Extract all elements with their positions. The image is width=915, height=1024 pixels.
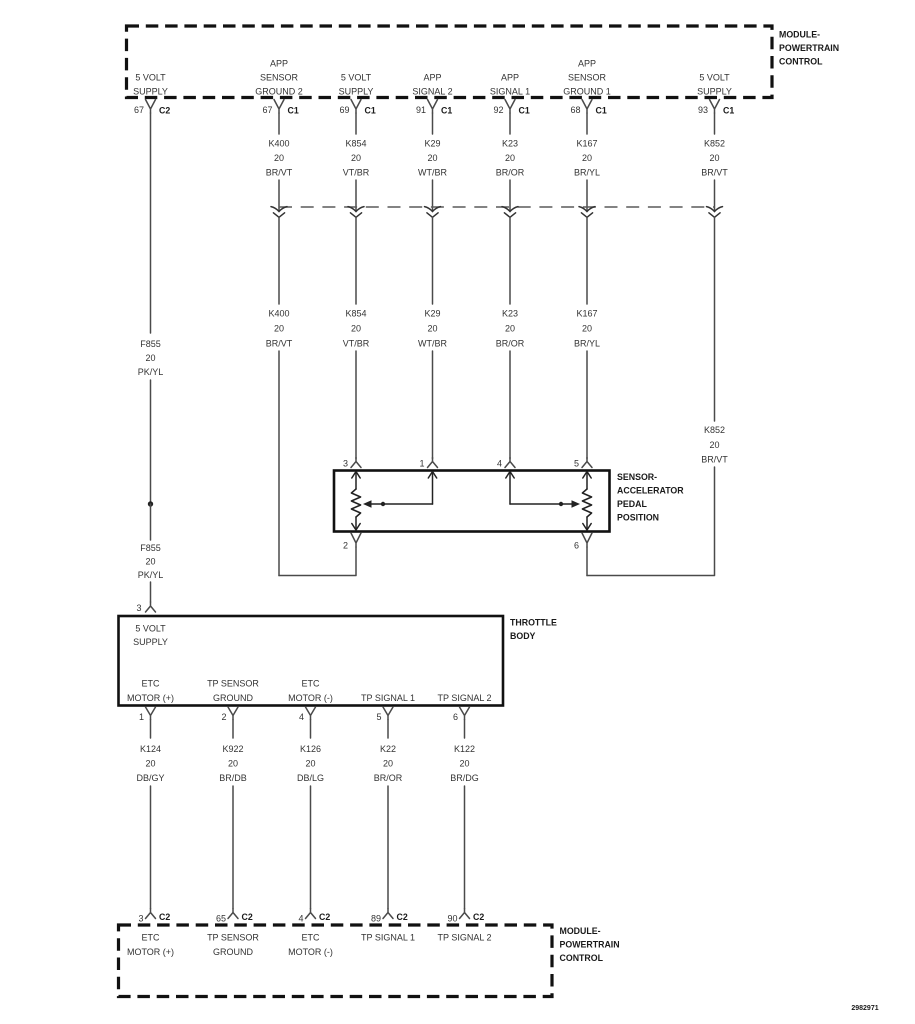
svg-text:GROUND 2: GROUND 2 [255, 87, 303, 97]
svg-text:20: 20 [228, 759, 238, 769]
svg-text:67: 67 [134, 105, 144, 115]
resistor R2 (APP pot 2) [582, 489, 591, 517]
svg-text:ETC: ETC [142, 679, 161, 689]
svg-text:BR/OR: BR/OR [496, 168, 525, 178]
svg-text:BR/YL: BR/YL [574, 339, 600, 349]
in-line connector symbol at K852 [707, 207, 723, 212]
svg-text:6: 6 [574, 541, 579, 551]
svg-text:5: 5 [574, 459, 579, 469]
svg-text:BODY: BODY [510, 631, 536, 641]
svg-text:5 VOLT: 5 VOLT [135, 73, 166, 83]
svg-text:68: 68 [570, 105, 580, 115]
svg-text:C2: C2 [242, 912, 253, 922]
svg-text:4: 4 [298, 914, 303, 924]
svg-text:K852: K852 [704, 139, 725, 149]
connector pin 89 C2 (bottom) [383, 909, 393, 919]
pot 2 wiper dot [559, 502, 563, 506]
connector pin 65 C2 (bottom) [228, 909, 238, 919]
svg-text:BR/YL: BR/YL [574, 168, 600, 178]
svg-text:5 VOLT: 5 VOLT [699, 73, 730, 83]
in-line connector symbol at K29 [425, 207, 441, 212]
svg-text:65: 65 [216, 914, 226, 924]
resistor R1 (APP pot 1) [351, 489, 360, 517]
wire K23 from pin 92 C1 [509, 113, 511, 134]
throttle body pin 6 (bottom) [460, 707, 470, 720]
in-line connector symbol at K854 [348, 207, 364, 212]
wire K167 from pin 68 C1 [586, 113, 588, 134]
svg-text:BR/OR: BR/OR [374, 773, 403, 783]
svg-text:TP SIGNAL 1: TP SIGNAL 1 [361, 933, 415, 943]
wire K29 segment to in-line connector [432, 180, 434, 211]
sensor pin 1 (top) [428, 458, 438, 468]
svg-text:20: 20 [427, 324, 437, 334]
wire K23 segment below in-line connector [509, 217, 511, 304]
svg-text:C2: C2 [159, 106, 170, 116]
svg-text:VT/BR: VT/BR [343, 168, 370, 178]
svg-text:20: 20 [459, 759, 469, 769]
svg-text:SENSOR: SENSOR [260, 73, 299, 83]
wire K852 upper run [714, 217, 716, 421]
wire K126 upper segment [310, 720, 312, 739]
svg-text:C1: C1 [723, 106, 734, 116]
PCM top dashed box [127, 26, 773, 98]
svg-text:DB/LG: DB/LG [297, 773, 324, 783]
wire K854 segment to in-line connector [355, 180, 357, 211]
pot 2 bottom lead [586, 517, 588, 530]
wire K167 segment to sensor pin [586, 351, 588, 459]
connector pin 4 C2 (bottom) [306, 909, 316, 919]
svg-text:ETC: ETC [302, 679, 321, 689]
pot 2 wiper entry arrow (pin 4) [506, 472, 514, 479]
svg-text:90: 90 [447, 914, 457, 924]
svg-text:20: 20 [709, 440, 719, 450]
pot 2 wiper arm [510, 503, 576, 505]
svg-text:SUPPLY: SUPPLY [133, 87, 168, 97]
svg-text:SUPPLY: SUPPLY [133, 637, 168, 647]
svg-text:20: 20 [145, 759, 155, 769]
wire F855 from pin 67 C2 [150, 113, 152, 333]
svg-text:MOTOR (-): MOTOR (-) [288, 947, 333, 957]
svg-text:K854: K854 [345, 309, 366, 319]
svg-text:3: 3 [138, 914, 143, 924]
wire K29 from pin 91 C1 [432, 113, 434, 134]
svg-text:VT/BR: VT/BR [343, 339, 370, 349]
svg-text:C1: C1 [519, 106, 530, 116]
wire K167 segment below in-line connector [586, 217, 588, 304]
svg-text:K852: K852 [704, 425, 725, 435]
wire K854 from pin 69 C1 [355, 113, 357, 134]
svg-text:6: 6 [453, 712, 458, 722]
wire pin6 stub [586, 547, 588, 576]
svg-text:GROUND: GROUND [213, 693, 253, 703]
throttle body pin 2 (bottom) [228, 707, 238, 720]
svg-text:20: 20 [274, 324, 284, 334]
svg-text:WT/BR: WT/BR [418, 339, 447, 349]
svg-text:POWERTRAIN: POWERTRAIN [560, 940, 620, 950]
svg-text:SENSOR-: SENSOR- [617, 472, 657, 482]
svg-text:20: 20 [305, 759, 315, 769]
sensor box outline [334, 471, 610, 532]
svg-text:MOTOR (+): MOTOR (+) [127, 947, 174, 957]
svg-text:1: 1 [139, 712, 144, 722]
wire K400 down to sensor ground run [278, 351, 280, 576]
sensor pin 2 (bottom) [351, 533, 361, 547]
svg-text:C1: C1 [441, 106, 452, 116]
wire K122 upper segment [464, 720, 466, 739]
svg-text:DB/GY: DB/GY [136, 773, 164, 783]
svg-text:BR/VT: BR/VT [266, 339, 293, 349]
svg-text:TP SIGNAL 2: TP SIGNAL 2 [437, 933, 491, 943]
connector pin 68 C1 [582, 100, 592, 114]
svg-text:APP: APP [270, 59, 288, 69]
svg-text:K29: K29 [424, 139, 440, 149]
svg-text:20: 20 [383, 759, 393, 769]
pot 1 wiper dot [381, 502, 385, 506]
wire pin2 to K400 [279, 547, 356, 576]
svg-text:C1: C1 [596, 106, 607, 116]
connector pin 69 C1 [351, 100, 361, 114]
in-line connector symbol at K23 [502, 207, 518, 212]
svg-text:K126: K126 [300, 744, 321, 754]
svg-text:APP: APP [578, 59, 596, 69]
svg-text:4: 4 [299, 712, 304, 722]
svg-text:F855: F855 [140, 339, 161, 349]
in-line connector symbol at K167 [579, 207, 595, 212]
svg-text:K400: K400 [268, 139, 289, 149]
svg-text:89: 89 [371, 914, 381, 924]
svg-text:K400: K400 [268, 309, 289, 319]
svg-text:K22: K22 [380, 744, 396, 754]
svg-text:20: 20 [274, 153, 284, 163]
wire K124 upper segment [150, 720, 152, 739]
svg-text:ACCELERATOR: ACCELERATOR [617, 486, 684, 496]
sensor pin 4 (top) [505, 458, 515, 468]
wire K23 segment to in-line connector [509, 180, 511, 211]
connector pin 91 C1 [428, 100, 438, 114]
wire K22 upper segment [387, 720, 389, 739]
svg-text:SUPPLY: SUPPLY [339, 87, 374, 97]
svg-text:1: 1 [419, 459, 424, 469]
svg-text:20: 20 [505, 324, 515, 334]
svg-text:APP: APP [501, 73, 519, 83]
svg-text:GROUND: GROUND [213, 947, 253, 957]
svg-text:20: 20 [145, 353, 155, 363]
svg-text:3: 3 [136, 603, 141, 613]
svg-text:SIGNAL 2: SIGNAL 2 [412, 87, 452, 97]
svg-text:GROUND 1: GROUND 1 [563, 87, 611, 97]
svg-text:3: 3 [343, 459, 348, 469]
svg-text:THROTTLE: THROTTLE [510, 618, 557, 628]
pot 1 wiper entry arrow (pin 1) [428, 472, 436, 479]
wire K122 segment to PCM pin [464, 786, 466, 909]
svg-text:ETC: ETC [302, 933, 321, 943]
svg-text:BR/VT: BR/VT [266, 168, 293, 178]
svg-text:APP: APP [423, 73, 441, 83]
wire K854 segment below in-line connector [355, 217, 357, 304]
pot 1 exit arrow (pin 2) [352, 524, 360, 531]
svg-text:SENSOR: SENSOR [568, 73, 607, 83]
svg-text:K23: K23 [502, 309, 518, 319]
pot 1 wiper arm [367, 503, 433, 505]
svg-text:TP SENSOR: TP SENSOR [207, 933, 259, 943]
svg-text:C2: C2 [159, 912, 170, 922]
svg-text:TP SIGNAL 2: TP SIGNAL 2 [437, 693, 491, 703]
in-line connector dashed line [279, 206, 715, 208]
svg-text:69: 69 [339, 105, 349, 115]
svg-text:5: 5 [376, 712, 381, 722]
svg-text:C2: C2 [397, 912, 408, 922]
connector pin 67 C2 [146, 100, 156, 114]
svg-text:BR/OR: BR/OR [496, 339, 525, 349]
svg-text:91: 91 [416, 105, 426, 115]
connector pin 67 C1 [274, 100, 284, 114]
svg-text:MODULE-: MODULE- [779, 30, 820, 40]
svg-text:2982971: 2982971 [851, 1005, 878, 1012]
svg-text:POWERTRAIN: POWERTRAIN [779, 43, 839, 53]
svg-text:5 VOLT: 5 VOLT [135, 624, 166, 634]
wire F855 segment to splice [150, 380, 152, 504]
throttle body pin 1 (bottom) [146, 707, 156, 720]
svg-text:4: 4 [497, 459, 502, 469]
wire K852 lower run [587, 467, 715, 576]
svg-text:TP SIGNAL 1: TP SIGNAL 1 [361, 693, 415, 703]
svg-text:CONTROL: CONTROL [560, 953, 604, 963]
svg-text:BR/VT: BR/VT [701, 455, 728, 465]
throttle body pin 5 (bottom) [383, 707, 393, 720]
svg-text:K124: K124 [140, 744, 161, 754]
wire K854 segment to sensor pin [355, 351, 357, 459]
svg-text:MOTOR (+): MOTOR (+) [127, 693, 174, 703]
svg-text:BR/DG: BR/DG [450, 773, 479, 783]
wire K29 segment to sensor pin [432, 351, 434, 459]
svg-text:PEDAL: PEDAL [617, 499, 647, 509]
wire F855 segment to throttle body pin 3 [150, 582, 152, 602]
wire K167 segment to in-line connector [586, 180, 588, 211]
svg-text:BR/VT: BR/VT [701, 168, 728, 178]
in-line connector symbol at K400 [271, 207, 287, 212]
svg-text:BR/DB: BR/DB [219, 773, 247, 783]
connector pin 93 C1 [710, 100, 720, 114]
sensor pin 3 (top) [351, 458, 361, 468]
svg-text:20: 20 [709, 153, 719, 163]
wire K852 segment to in-line connector [714, 180, 716, 211]
svg-text:C1: C1 [365, 106, 376, 116]
svg-text:C1: C1 [288, 106, 299, 116]
svg-text:67: 67 [262, 105, 272, 115]
svg-text:WT/BR: WT/BR [418, 168, 447, 178]
wire K400 from pin 67 C1 [278, 113, 280, 134]
svg-text:C2: C2 [319, 912, 330, 922]
pot 2 entry arrow (pin 5) [583, 472, 591, 479]
throttle body box outline [119, 616, 504, 706]
svg-text:93: 93 [698, 105, 708, 115]
svg-text:K122: K122 [454, 744, 475, 754]
sensor pin 5 (top) [582, 458, 592, 468]
wire K22 segment to PCM pin [387, 786, 389, 909]
PCM bottom dashed box [119, 925, 553, 997]
svg-text:K167: K167 [576, 309, 597, 319]
svg-text:K29: K29 [424, 309, 440, 319]
svg-text:20: 20 [351, 324, 361, 334]
svg-text:20: 20 [505, 153, 515, 163]
svg-text:PK/YL: PK/YL [138, 367, 164, 377]
throttle body pin 4 (bottom) [306, 707, 316, 720]
pot 2 exit arrow (pin 6) [583, 524, 591, 531]
svg-text:20: 20 [427, 153, 437, 163]
svg-text:K23: K23 [502, 139, 518, 149]
pot 1 bottom lead [355, 517, 357, 530]
splice junction dot [148, 501, 153, 506]
wire K922 upper segment [232, 720, 234, 739]
connector pin 3 C2 (bottom) [146, 909, 156, 919]
svg-text:20: 20 [351, 153, 361, 163]
svg-text:PK/YL: PK/YL [138, 570, 164, 580]
throttle body pin 3 symbol [146, 602, 156, 612]
svg-text:POSITION: POSITION [617, 513, 659, 523]
svg-text:MOTOR (-): MOTOR (-) [288, 693, 333, 703]
svg-text:20: 20 [582, 324, 592, 334]
svg-text:MODULE-: MODULE- [560, 926, 601, 936]
svg-text:K167: K167 [576, 139, 597, 149]
svg-text:SIGNAL 1: SIGNAL 1 [490, 87, 530, 97]
svg-text:K854: K854 [345, 139, 366, 149]
svg-text:C2: C2 [473, 912, 484, 922]
svg-text:2: 2 [343, 541, 348, 551]
connector pin 92 C1 [505, 100, 515, 114]
wire K126 segment to PCM pin [310, 786, 312, 909]
svg-text:SUPPLY: SUPPLY [697, 87, 732, 97]
svg-text:F855: F855 [140, 543, 161, 553]
svg-text:2: 2 [221, 712, 226, 722]
wire K29 segment below in-line connector [432, 217, 434, 304]
svg-text:20: 20 [145, 557, 155, 567]
wire K400 segment below in-line connector [278, 217, 280, 304]
wire F855 segment below splice [150, 504, 152, 540]
pot 1 entry arrow (pin 3) [352, 472, 360, 479]
wire K400 segment to in-line connector [278, 180, 280, 211]
svg-text:CONTROL: CONTROL [779, 57, 823, 67]
svg-text:5 VOLT: 5 VOLT [341, 73, 372, 83]
svg-text:20: 20 [582, 153, 592, 163]
wire K23 segment to sensor pin [509, 351, 511, 459]
svg-text:92: 92 [493, 105, 503, 115]
svg-text:TP SENSOR: TP SENSOR [207, 679, 259, 689]
wire K124 segment to PCM pin [150, 786, 152, 909]
wire K852 from pin 93 C1 [714, 113, 716, 134]
sensor pin 6 (bottom) [582, 533, 592, 547]
svg-text:ETC: ETC [142, 933, 161, 943]
wire K922 segment to PCM pin [232, 786, 234, 909]
svg-text:K922: K922 [222, 744, 243, 754]
connector pin 90 C2 (bottom) [460, 909, 470, 919]
